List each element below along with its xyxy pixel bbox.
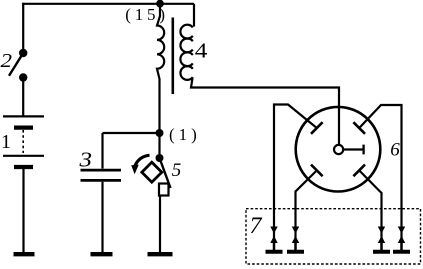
- battery dotted cell continuation: [22, 130, 24, 153]
- wire capacitor top to node (1): [103, 132, 160, 134]
- svg-text:3: 3: [78, 148, 92, 172]
- capacitor C bottom plate: [81, 179, 122, 182]
- wire capacitor to ground: [101, 182, 103, 252]
- cam rotation arrow: [131, 155, 149, 174]
- node (15) junction dot: [156, 0, 164, 8]
- electrode SW stem and wire down: [296, 170, 317, 250]
- spark plug 4 gap arrows: [393, 227, 410, 252]
- spark plug box dashed: [246, 209, 421, 264]
- spark plug 3 gap arrows: [373, 227, 390, 252]
- rotor center circle: [334, 145, 343, 154]
- electrode NE stem and wire to corner: [359, 105, 401, 251]
- label 1: [1, 131, 11, 153]
- svg-text:1: 1: [1, 131, 11, 153]
- battery 1 plate long bottom: [3, 155, 44, 157]
- electrode NW bar: [311, 122, 323, 134]
- wire switch to battery: [22, 78, 24, 116]
- switch S upper contact dot: [19, 49, 27, 57]
- battery 1 plate short thick bottom: [14, 165, 33, 169]
- label 6: [390, 140, 400, 161]
- label 3: [78, 148, 92, 172]
- battery 1 plate long top: [3, 115, 44, 117]
- wire capacitor lead down: [101, 133, 103, 169]
- electrode SE stem and wire down: [359, 170, 381, 250]
- svg-text:7: 7: [250, 213, 264, 238]
- svg-text:(15): (15): [125, 5, 169, 24]
- breaker pivot dot: [156, 154, 164, 162]
- svg-text:4: 4: [195, 39, 208, 63]
- wire breaker to ground: [159, 196, 161, 253]
- ignition coil core: [172, 18, 175, 95]
- wire node (1) to breaker pivot: [158, 133, 160, 158]
- ground bar battery: [14, 252, 35, 256]
- distributor 6 body circle: [296, 107, 381, 192]
- electrode SE bar: [353, 165, 365, 177]
- svg-text:6: 6: [390, 140, 400, 161]
- switch lower contact dot: [19, 73, 27, 81]
- ground bar breaker: [148, 252, 173, 256]
- svg-text:2: 2: [1, 51, 13, 72]
- wire battery to ground: [22, 169, 24, 252]
- label (1): [169, 125, 201, 144]
- ignition coil 4 secondary winding loops: [180, 25, 192, 80]
- capacitor C top plate: [81, 169, 122, 172]
- svg-text:5: 5: [172, 160, 182, 181]
- label 5: [172, 160, 182, 181]
- electrode SW bar: [311, 165, 323, 177]
- wire top to secondary: [193, 4, 195, 27]
- switch 2 lever: [9, 53, 23, 76]
- spark plug 1 gap arrows: [266, 227, 283, 252]
- spark plug 2 gap arrows: [287, 227, 304, 252]
- ignition coil 4 primary winding: [157, 4, 164, 133]
- node (1) junction dot: [156, 129, 164, 137]
- svg-text:(1): (1): [169, 125, 201, 144]
- wire top horizontal from switch column to coil corner: [22, 3, 194, 5]
- electrode NE bar: [353, 122, 365, 134]
- wire left column from top corner down to switch: [22, 3, 24, 52]
- wire secondary exit to distributor center: [191, 78, 339, 146]
- label 2: [1, 51, 13, 72]
- battery 1 plate short thick top: [14, 125, 33, 129]
- breaker fixed contact block: [159, 184, 169, 196]
- label 4: [195, 39, 208, 63]
- label (15): [125, 5, 169, 24]
- ground bar capacitor: [91, 252, 113, 256]
- rotor arm: [343, 145, 363, 155]
- breaker 5 movable arm: [160, 158, 171, 188]
- label 7: [250, 213, 264, 238]
- electrode NW stem and wire to corner: [274, 105, 317, 251]
- cam diamond: [142, 162, 162, 182]
